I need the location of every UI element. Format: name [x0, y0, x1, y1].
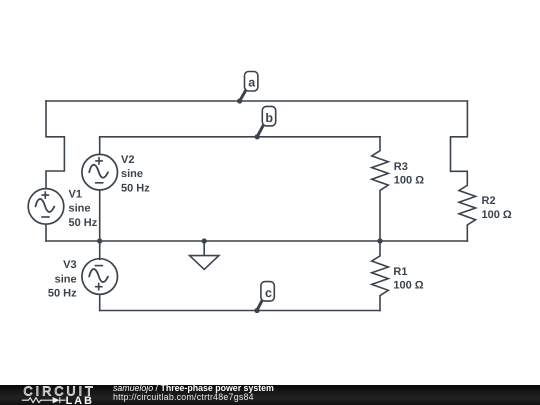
- svg-text:c: c: [265, 286, 272, 300]
- svg-text:100 Ω: 100 Ω: [394, 175, 424, 187]
- svg-text:a: a: [248, 76, 256, 90]
- svg-text:50 Hz: 50 Hz: [121, 183, 150, 195]
- svg-text:V2: V2: [121, 154, 134, 166]
- svg-text:100 Ω: 100 Ω: [482, 209, 512, 221]
- svg-text:sine: sine: [121, 168, 143, 180]
- svg-text:sine: sine: [69, 203, 91, 215]
- svg-text:sine: sine: [55, 273, 77, 285]
- svg-text:R1: R1: [393, 266, 407, 278]
- svg-text:b: b: [265, 111, 273, 125]
- svg-text:V1: V1: [69, 189, 82, 201]
- svg-text:100 Ω: 100 Ω: [393, 279, 423, 291]
- svg-text:50 Hz: 50 Hz: [69, 217, 98, 229]
- svg-text:LAB: LAB: [66, 395, 95, 405]
- svg-text:50 Hz: 50 Hz: [48, 288, 77, 300]
- svg-text:V3: V3: [63, 259, 76, 271]
- svg-text:R2: R2: [482, 195, 496, 207]
- svg-text:R3: R3: [394, 161, 408, 173]
